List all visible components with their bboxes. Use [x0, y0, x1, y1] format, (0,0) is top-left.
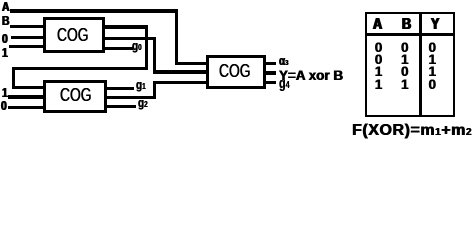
truth table outer border [365, 12, 454, 116]
truth table header underline [365, 33, 454, 36]
pin label g0 [132, 40, 144, 53]
wire U2 out1 stub g1 [105, 87, 134, 90]
wire A into U3 pin 1 [175, 62, 209, 65]
wire 1 to U2 [8, 95, 46, 98]
wire 1 to U1 [9, 45, 46, 48]
caption F(XOR)=m1+m2 [352, 123, 472, 139]
wire U2 out2 into U3 pin 3 [153, 81, 208, 84]
gate U3 COG box [206, 55, 266, 89]
node 1 label (U1 input) [2, 46, 9, 59]
wire B to U1 [10, 25, 46, 28]
truth table column B values [395, 41, 415, 55]
truth table column A values [369, 41, 389, 55]
net label Y = A xor B [279, 68, 346, 82]
wire U1 out2 into U3 pin 2 [153, 70, 208, 73]
wire U1 out1 horizontal [104, 25, 148, 28]
wire U3 out3 stub [264, 81, 276, 84]
wire U3 out1 stub [264, 62, 276, 65]
wire U1 out2 vertical drop [153, 37, 156, 74]
wire A vertical drop [175, 9, 178, 65]
wire U1 out2 horizontal [104, 37, 156, 40]
wire U3 out2 stub [264, 71, 276, 74]
wire U2 out2 vertical rise [153, 81, 156, 99]
gate U3 COG label [219, 62, 260, 80]
node B label [2, 14, 11, 27]
truth table header B [396, 17, 416, 33]
wire U2 out3 stub g2 [105, 105, 136, 108]
gate U2 COG box [43, 80, 107, 113]
wire 0 to U1 [11, 36, 47, 39]
wire U1 out3 stub g0 [104, 47, 133, 50]
pin label a3 [279, 55, 291, 68]
pin label g1 [136, 79, 148, 92]
gate U1 COG label [57, 26, 98, 44]
wire A horizontal [10, 9, 179, 12]
wire feedback long horizontal to left [12, 67, 148, 70]
wire feedback vertical at left [12, 67, 15, 89]
gate U2 COG label [60, 86, 101, 104]
wire feedback into U2 pin 1 [12, 86, 46, 89]
wire U2 out2 horizontal long [105, 96, 156, 99]
truth table header A [368, 17, 388, 33]
gate U1 COG box [43, 17, 105, 53]
node 0 label (U1 input) [2, 32, 9, 45]
node 0 label (U2 input) [1, 99, 8, 112]
truth table column Y values [422, 41, 442, 55]
truth table column divider [419, 12, 422, 116]
pin label g4 [279, 76, 294, 91]
pin label g2 [138, 97, 150, 110]
wire U1 out1 vertical drop [145, 25, 148, 70]
truth table header Y [425, 17, 445, 33]
node A label [2, 0, 11, 13]
wire 0 to U2 [8, 106, 46, 109]
node 1 label (U2 input) [2, 86, 9, 99]
